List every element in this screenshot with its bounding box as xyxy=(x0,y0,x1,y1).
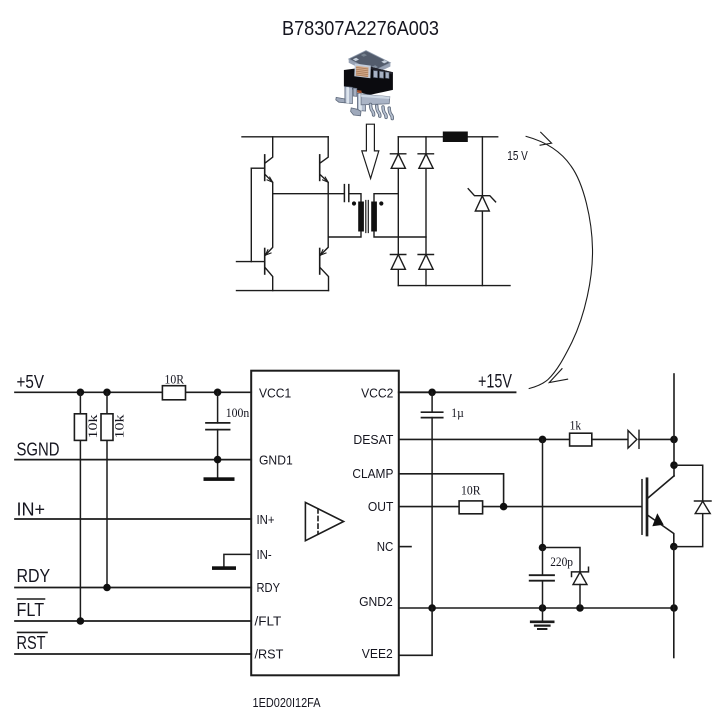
/RST net wire xyxy=(15,653,251,655)
capacitor C1 plates xyxy=(206,423,230,430)
junction dot OUT xyxy=(500,503,508,511)
capacitor C2 1u leads xyxy=(431,392,433,608)
diode D1 xyxy=(390,154,405,169)
transistor Q4 xyxy=(320,237,329,291)
svg-text:NC: NC xyxy=(377,539,394,554)
transistor Q3 xyxy=(265,194,273,291)
DESAT net wire xyxy=(399,438,674,440)
diode D4 xyxy=(418,255,433,270)
label FLT overline xyxy=(18,598,45,600)
svg-text:VCC2: VCC2 xyxy=(361,385,393,400)
svg-text:GND2: GND2 xyxy=(359,594,393,609)
VEE2 net wire xyxy=(399,608,432,655)
GND2 net wire xyxy=(399,607,674,609)
oscillator bottom rail xyxy=(237,290,329,292)
red mark xyxy=(355,90,362,94)
svg-text:100n: 100n xyxy=(226,405,250,420)
collar tabs xyxy=(374,71,378,78)
transistor Q2 xyxy=(320,137,329,237)
top plate xyxy=(349,51,391,72)
svg-text:+15V: +15V xyxy=(478,372,512,393)
black core xyxy=(344,67,393,96)
resistor R2 10k xyxy=(74,414,86,441)
svg-text:OUT: OUT xyxy=(368,499,394,514)
svg-text:VCC1: VCC1 xyxy=(259,385,291,400)
output top rail xyxy=(398,136,497,138)
branch to zener xyxy=(543,548,581,572)
transformer T1 primary xyxy=(358,202,364,232)
220p branch vertical xyxy=(542,439,544,547)
leg mid xyxy=(357,93,365,111)
svg-text:FLT: FLT xyxy=(17,600,45,620)
primary phase dot xyxy=(352,201,356,205)
VCC2 net wire xyxy=(399,391,516,393)
IGBT Q5 xyxy=(642,476,674,547)
junction dot VCC2 xyxy=(428,389,436,397)
junction dots GND2 xyxy=(428,604,436,612)
junction dot RDY xyxy=(103,584,111,592)
IN- ground bar xyxy=(212,566,236,570)
Q3 base wire xyxy=(237,261,265,263)
resistor R5 10R xyxy=(459,501,483,514)
hollow arrow xyxy=(362,124,379,178)
OUT net wire xyxy=(399,506,641,508)
svg-text:B78307A2276A003: B78307A2276A003 xyxy=(282,17,439,40)
svg-text:SGND: SGND xyxy=(17,440,60,460)
svg-text:+5V: +5V xyxy=(17,372,45,392)
svg-text:1ED020I12FA: 1ED020I12FA xyxy=(253,695,321,710)
IN- stub wire xyxy=(224,554,251,566)
freewheel diode D6 branch xyxy=(674,465,703,546)
IGBT collector rail xyxy=(673,374,675,476)
diode D6 xyxy=(695,501,712,514)
zener Z1 xyxy=(468,189,495,211)
junction dots on +5V xyxy=(77,389,85,397)
ground symbol xyxy=(531,608,553,629)
emitter junction dot xyxy=(670,543,678,551)
capacitor C2 plates xyxy=(422,412,443,417)
bridge left rail xyxy=(397,137,399,286)
svg-text:1µ: 1µ xyxy=(451,405,464,420)
capacitor C3 plates xyxy=(530,575,554,581)
diode D2 xyxy=(418,154,433,169)
junction dot FLT xyxy=(77,617,85,625)
second small leg xyxy=(353,88,357,96)
zener rail xyxy=(481,137,483,286)
wire cap to primary xyxy=(350,194,362,202)
resistor R3 10k xyxy=(101,414,113,441)
copper winding xyxy=(356,66,369,77)
svg-text:RDY: RDY xyxy=(257,580,281,595)
svg-text:VEE2: VEE2 xyxy=(362,646,393,661)
svg-text:220p: 220p xyxy=(550,554,573,569)
gate driver IC U1 xyxy=(251,371,399,676)
svg-text:15 V: 15 V xyxy=(507,149,528,163)
diode D3 xyxy=(390,255,405,270)
bobbin flange xyxy=(354,64,371,79)
coupling capacitor xyxy=(344,185,348,202)
secondary bottom lead xyxy=(374,232,426,238)
node A wire xyxy=(273,193,344,195)
junction dot collector xyxy=(670,436,678,444)
resistor R4 1k xyxy=(570,433,592,446)
transistor Q1 xyxy=(265,137,273,194)
svg-text:RDY: RDY xyxy=(17,566,51,586)
junction dot 220p xyxy=(539,544,547,552)
svg-text:/RST: /RST xyxy=(255,647,284,662)
right slab xyxy=(361,94,390,105)
transformer core xyxy=(366,201,369,233)
junction dot collector corner xyxy=(670,461,678,469)
svg-text:IN-: IN- xyxy=(257,547,272,562)
capacitor C1 100n lead xyxy=(217,392,219,459)
NC stub xyxy=(399,546,411,548)
junction dot DESAT xyxy=(539,436,547,444)
output bottom rail xyxy=(398,285,510,287)
/FLT net wire xyxy=(15,620,251,622)
curved arrow xyxy=(526,132,592,388)
top plate rim xyxy=(349,59,391,75)
Q1 base wire xyxy=(251,167,264,169)
C1 ground bar xyxy=(204,477,235,481)
svg-text:10R: 10R xyxy=(461,483,481,498)
svg-text:10k: 10k xyxy=(112,414,127,439)
svg-text:1k: 1k xyxy=(570,418,582,433)
emitter rail xyxy=(673,547,675,658)
capacitor C3 220p leads xyxy=(542,548,544,609)
junction dot GND1 xyxy=(214,456,222,464)
svg-text:CLAMP: CLAMP xyxy=(352,466,393,481)
label RST overline xyxy=(18,631,47,633)
gull pins xyxy=(371,105,393,119)
inductor / ferrite bead L1 xyxy=(443,132,468,143)
svg-text:RST: RST xyxy=(17,633,46,653)
svg-text:/FLT: /FLT xyxy=(255,614,282,629)
transformer module photo xyxy=(336,51,393,119)
CLAMP net wire xyxy=(399,474,504,507)
plate pads xyxy=(353,58,359,61)
leg left xyxy=(345,87,353,104)
svg-text:10R: 10R xyxy=(165,372,185,387)
svg-text:DESAT: DESAT xyxy=(353,432,393,447)
base link wire xyxy=(250,168,252,261)
+5V net wire xyxy=(15,391,251,393)
resistor R1 10R xyxy=(162,386,185,400)
op-amp symbol xyxy=(305,502,343,540)
svg-text:10k: 10k xyxy=(85,414,100,439)
resistor R2 10k vertical wire xyxy=(79,392,81,621)
svg-text:IN+: IN+ xyxy=(257,512,275,527)
diode D5 xyxy=(628,430,639,448)
resistor R3 10k vertical wire xyxy=(106,392,108,587)
IN+ net wire xyxy=(15,518,251,520)
SGND net wire xyxy=(15,459,251,461)
C1 ground stub xyxy=(217,460,219,478)
zener Z2 xyxy=(572,567,589,608)
RDY net wire xyxy=(15,587,251,589)
leg mid foot xyxy=(351,108,361,116)
svg-text:IN+: IN+ xyxy=(17,500,46,520)
bridge right rail xyxy=(425,137,427,286)
secondary phase dot xyxy=(379,201,383,205)
leg left foot xyxy=(336,97,345,102)
node B wire xyxy=(328,232,361,238)
secondary top lead xyxy=(374,194,398,202)
transformer T1 secondary xyxy=(371,202,377,232)
svg-text:GND1: GND1 xyxy=(259,453,293,468)
oscillator top rail xyxy=(242,136,328,138)
